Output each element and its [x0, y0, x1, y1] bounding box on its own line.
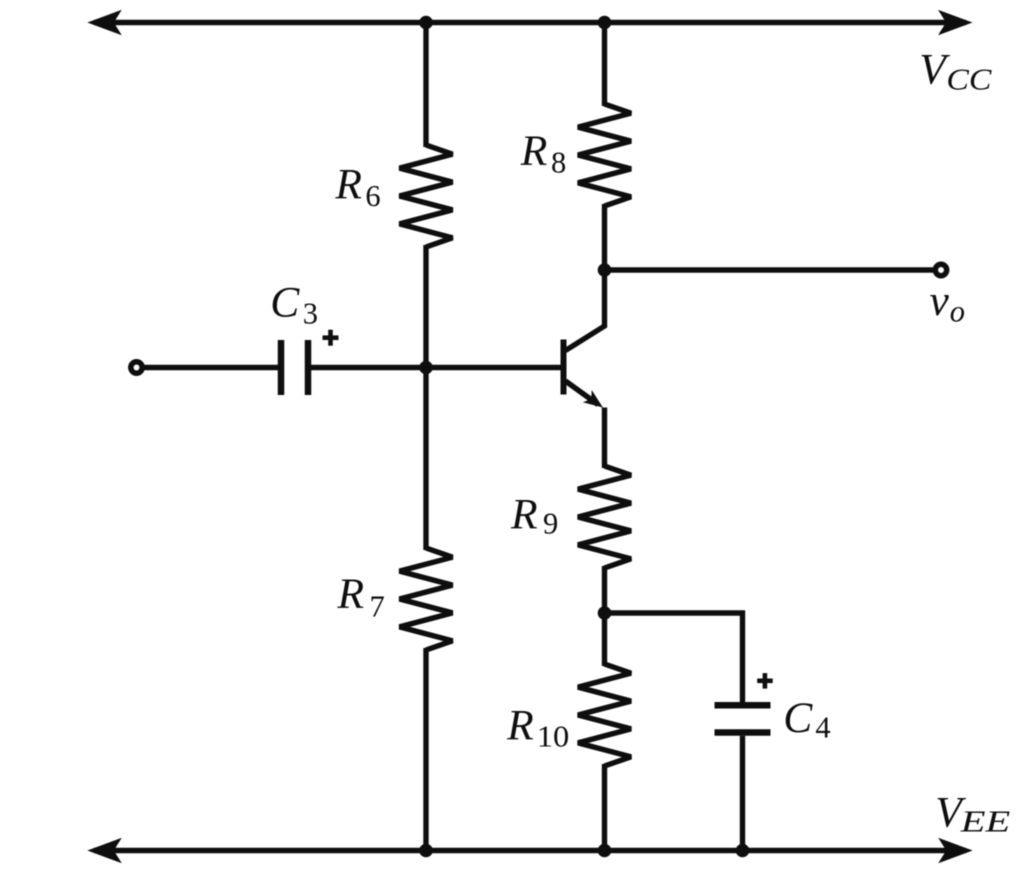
- resistor R7: [400, 548, 453, 650]
- wire C4 to bottom rail: [740, 736, 745, 851]
- junction dot input node: [419, 361, 433, 375]
- junction dot top rail R8 branch: [598, 16, 612, 30]
- capacitor C4: [715, 702, 771, 709]
- resistor R6: [400, 145, 453, 247]
- wire R9 to node: [602, 566, 607, 666]
- wire base lead: [426, 365, 561, 370]
- svg-text:4: 4: [815, 710, 830, 744]
- junction dot top rail left branch: [419, 16, 433, 30]
- arrowhead top-right: [938, 10, 973, 36]
- wire rail to R8: [602, 23, 607, 107]
- wire bottom rail VEE: [94, 848, 966, 853]
- arrowhead bottom-left: [87, 838, 122, 864]
- wire C3 to input node: [311, 365, 426, 370]
- input terminal: [131, 362, 142, 373]
- junction dot bottom rail C4 branch: [736, 844, 750, 858]
- wire R8 to collector node: [602, 204, 607, 270]
- plus sign of C4: [757, 673, 773, 689]
- capacitor C3: [278, 340, 285, 395]
- arrowhead top-left: [87, 10, 122, 36]
- svg-text:R: R: [337, 570, 365, 618]
- arrowhead bottom-right: [938, 838, 973, 864]
- wire R10 to bottom rail: [602, 764, 607, 851]
- svg-text:R: R: [334, 161, 362, 209]
- plus sign of C3: [323, 330, 339, 346]
- resistor R10: [578, 664, 631, 766]
- junction dot R9/R10 node: [598, 606, 612, 620]
- junction dot bottom rail R10 branch: [598, 844, 612, 858]
- junction dot bottom rail left branch: [419, 844, 433, 858]
- svg-text:3: 3: [303, 297, 318, 331]
- wire node to C4 branch: [605, 613, 743, 702]
- svg-text:R: R: [520, 127, 548, 175]
- svg-text:R: R: [506, 702, 534, 750]
- svg-text:o: o: [950, 294, 965, 328]
- svg-text:EE: EE: [959, 805, 1010, 839]
- output terminal: [935, 264, 946, 275]
- wire R7 to bottom rail: [423, 648, 428, 851]
- svg-text:v: v: [930, 277, 950, 325]
- svg-text:C: C: [270, 278, 300, 326]
- svg-text:8: 8: [551, 146, 566, 180]
- wire R6 to R7 through input node: [423, 245, 428, 550]
- wire emitter to R9: [602, 408, 607, 469]
- svg-text:R: R: [510, 490, 538, 538]
- svg-text:9: 9: [543, 506, 558, 540]
- wire left branch upper (rail to R6): [423, 23, 428, 148]
- junction dot collector/output node: [598, 263, 612, 277]
- resistor R8: [578, 104, 631, 206]
- svg-text:6: 6: [365, 179, 380, 213]
- transistor emitter lead: [566, 381, 599, 405]
- svg-text:C: C: [783, 694, 813, 742]
- resistor R9: [578, 466, 631, 568]
- transistor collector lead: [566, 270, 605, 351]
- wire top rail VCC: [94, 20, 966, 25]
- transistor Q (npn) base bar: [561, 340, 567, 395]
- emitter arrowhead: [583, 390, 608, 414]
- wire output: [605, 267, 934, 272]
- wire input terminal to C3: [143, 365, 278, 370]
- svg-text:CC: CC: [946, 62, 992, 96]
- svg-text:10: 10: [537, 720, 570, 754]
- svg-text:7: 7: [370, 589, 385, 623]
